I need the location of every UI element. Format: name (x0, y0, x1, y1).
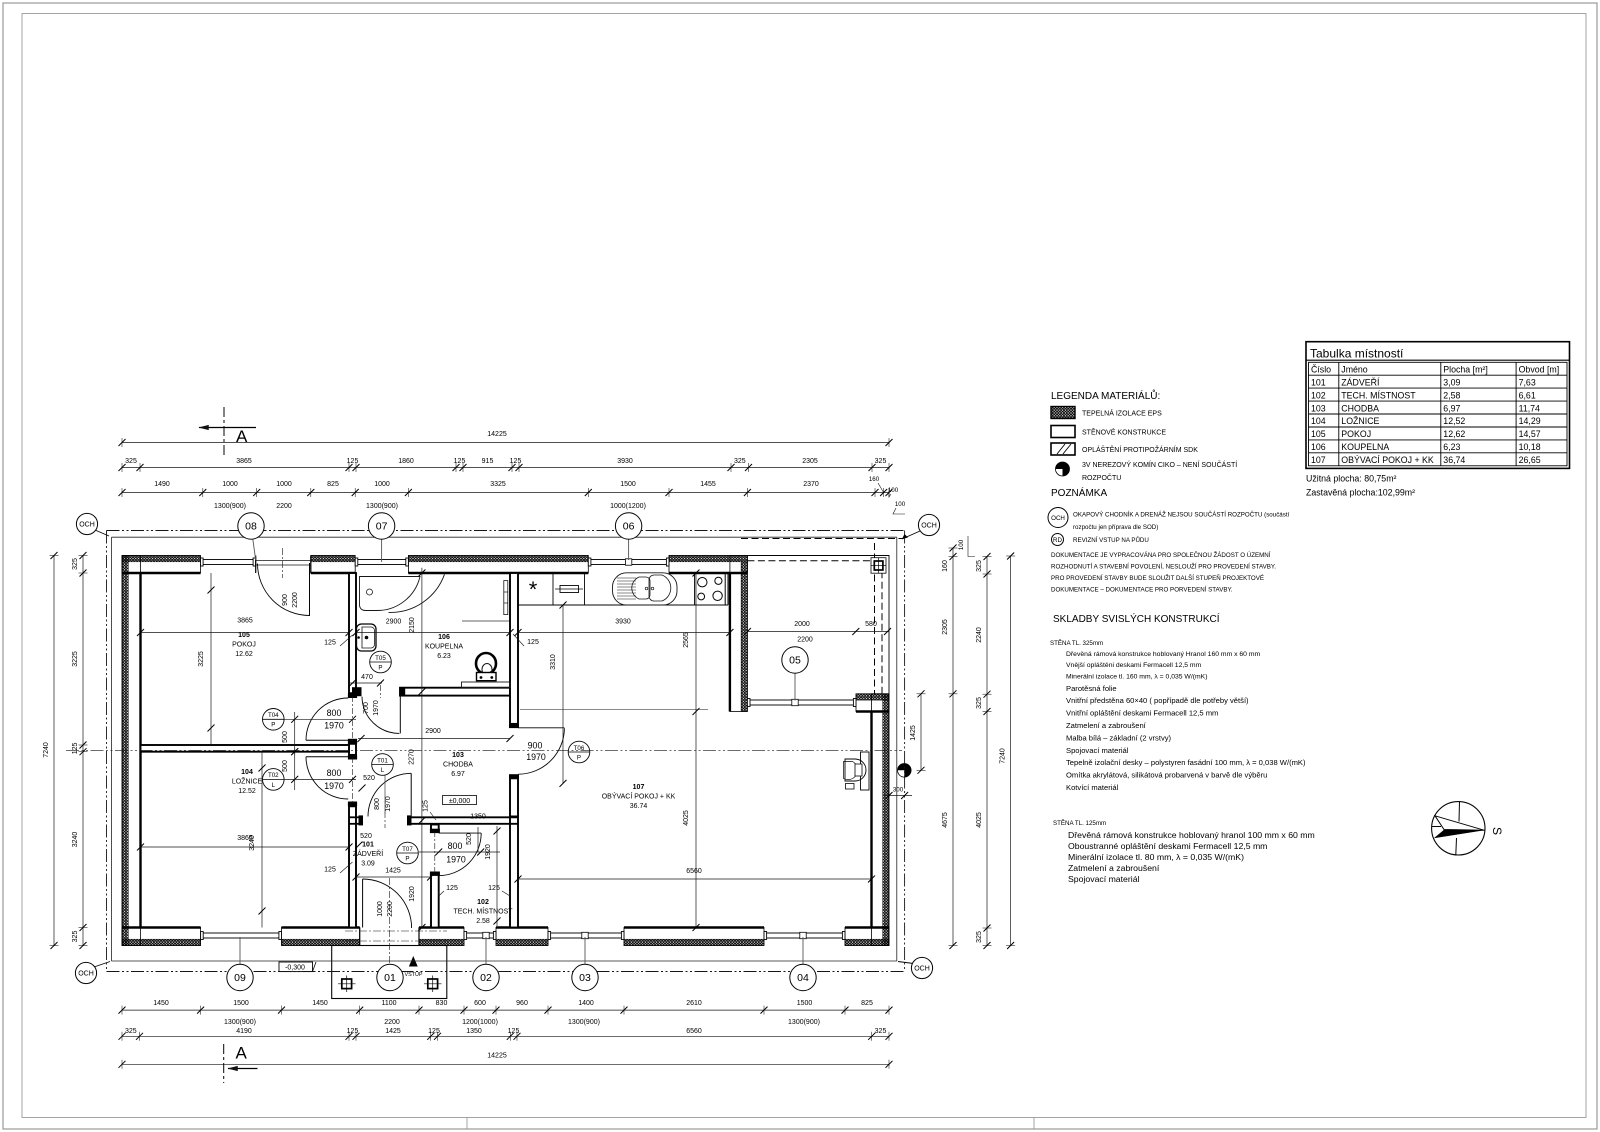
pos circle 09 (239, 937, 241, 978)
svg-text:125: 125 (423, 800, 430, 812)
bottom row 1 (122, 1009, 889, 1011)
bathtub (360, 577, 421, 611)
svg-text:700: 700 (363, 702, 370, 714)
svg-text:325: 325 (734, 458, 746, 465)
svg-text:3V NEREZOVÝ KOMÍN CIKO – NENÍ: 3V NEREZOVÝ KOMÍN CIKO – NENÍ SOUČÁSTÍ (1082, 460, 1237, 469)
svg-text:OCH: OCH (78, 971, 94, 978)
svg-text:325: 325 (125, 458, 137, 465)
svg-text:26,65: 26,65 (1519, 455, 1541, 465)
T04 500 offset (294, 712, 296, 755)
svg-text:rozpočtu jen příprava dle SOD): rozpočtu jen příprava dle SOD) (1073, 524, 1158, 531)
svg-text:101: 101 (1311, 377, 1326, 387)
tech 1920 (496, 826, 498, 926)
roof overhang dashed top (741, 538, 904, 540)
koupelna/chodba/zadveri vertical dim line (421, 568, 423, 928)
svg-text:OKAPOVÝ CHODNÍK A DRENÁŽ NEJSO: OKAPOVÝ CHODNÍK A DRENÁŽ NEJSOU SOUČÁSTÍ… (1073, 511, 1290, 519)
T06 door arc (to living) (518, 727, 564, 729)
window W08a top (1300(900)) (201, 559, 256, 561)
kitchen counter front edge (518, 604, 728, 606)
svg-text:3,09: 3,09 (1443, 377, 1460, 387)
svg-text:T01: T01 (377, 757, 388, 764)
svg-text:Vnější opláštěni deskami Ferma: Vnější opláštěni deskami Fermacell 12,5 … (1066, 662, 1202, 669)
room104 width 3865 (141, 846, 350, 848)
och note (1048, 508, 1068, 528)
pos circle 03 (584, 937, 586, 978)
OCH top-left (95, 530, 109, 536)
legend sdk swatch (1051, 443, 1075, 455)
svg-text:TEPELNÁ IZOLACE EPS: TEPELNÁ IZOLACE EPS (1082, 409, 1162, 418)
svg-text:SKLADBY SVISLÝCH KONSTRUKCÍ: SKLADBY SVISLÝCH KONSTRUKCÍ (1053, 612, 1220, 625)
top exterior wall outline (122, 556, 747, 574)
T01 jambs (359, 815, 364, 825)
svg-text:Minerální izolace tl. 160 mm,: Minerální izolace tl. 160 mm, λ = 0,035 … (1066, 673, 1207, 680)
svg-text:09: 09 (234, 972, 246, 984)
T02 500 offset (294, 748, 296, 790)
svg-text:100: 100 (895, 501, 906, 508)
partition P1 south part (349, 806, 356, 927)
svg-text:Spojovací materiál: Spojovací materiál (1066, 746, 1129, 755)
svg-text:ROZPOČTU: ROZPOČTU (1082, 473, 1121, 482)
svg-text:DOKUMENTACE JE VYPRACOVÁNA PRO: DOKUMENTACE JE VYPRACOVÁNA PRO SPOLEČNOU… (1051, 551, 1271, 559)
T02 dim line 800/1970 (284, 778, 356, 780)
window 03 bottom (548, 932, 624, 934)
pos circle 06 (628, 526, 630, 560)
svg-text:1920: 1920 (485, 844, 492, 860)
svg-text:325: 325 (72, 558, 79, 570)
svg-text:P: P (378, 664, 382, 671)
right exterior wall (lower) (872, 694, 890, 946)
svg-text:14225: 14225 (487, 431, 507, 438)
svg-text:104: 104 (1311, 416, 1326, 426)
svg-text:1920: 1920 (409, 886, 416, 902)
toilet (476, 653, 496, 674)
svg-text:Malba bílá – základní (2 vrstv: Malba bílá – základní (2 vrstvy) (1066, 733, 1172, 742)
T02 door leaf+arc (to loznice 104) (306, 756, 348, 758)
svg-text:08: 08 (245, 521, 257, 533)
table row 105 (1309, 426, 1568, 428)
svg-text:03: 03 (579, 972, 591, 984)
svg-text:12.62: 12.62 (235, 651, 253, 658)
mid axis dash-dot line (66, 749, 902, 751)
T05 koupelna door axis (380, 685, 382, 698)
T07 jambs (430, 829, 440, 833)
svg-text:2200: 2200 (292, 592, 299, 608)
svg-text:6.97: 6.97 (451, 771, 465, 778)
svg-text:2200: 2200 (387, 901, 394, 917)
svg-text:Spojovací materiál: Spojovací materiál (1068, 874, 1140, 884)
svg-text:2610: 2610 (686, 1000, 702, 1007)
T07 door axis (434, 831, 436, 874)
table row 107 (1309, 452, 1568, 454)
extension line at terrace-living wall inner face (520, 709, 708, 711)
entrance door leaf+arc (362, 879, 364, 928)
svg-text:500: 500 (282, 760, 289, 772)
legend chimney symbol (1056, 462, 1070, 476)
svg-text:580: 580 (865, 621, 877, 628)
kitchen sink unit (613, 573, 678, 605)
svg-text:CHODBA: CHODBA (1341, 403, 1379, 413)
legend wall swatch (1051, 426, 1075, 438)
door 08 axis (282, 548, 284, 578)
living width 6560 (518, 878, 872, 880)
svg-text:STĚNOVÉ KONSTRUKCE: STĚNOVÉ KONSTRUKCE (1082, 428, 1166, 437)
svg-text:-0,300: -0,300 (285, 965, 305, 972)
svg-text:1300(900): 1300(900) (366, 503, 398, 510)
koupelna width 2900 (356, 632, 510, 634)
towel radiator (504, 581, 508, 615)
T01 door axis (384, 812, 386, 828)
svg-text:6,97: 6,97 (1443, 403, 1460, 413)
svg-text:2370: 2370 (803, 481, 819, 488)
T02 circle (263, 769, 285, 791)
svg-text:3225: 3225 (72, 651, 79, 667)
svg-text:1425: 1425 (385, 1028, 401, 1035)
legend eps swatch (1051, 407, 1075, 419)
level ±0,000 (443, 796, 477, 805)
roof dashed inner (747, 560, 880, 562)
svg-text:1500: 1500 (797, 1000, 813, 1007)
svg-text:125: 125 (324, 867, 336, 874)
svg-text:4675: 4675 (942, 812, 949, 828)
koupelna 470 dim (349, 682, 382, 684)
svg-text:12,62: 12,62 (1443, 429, 1465, 439)
room105 height 3225 (210, 573, 212, 745)
walkway solid outline (112, 536, 897, 538)
svg-text:12.52: 12.52 (238, 788, 256, 795)
svg-text:1300(900): 1300(900) (788, 1019, 820, 1026)
svg-text:106: 106 (1311, 442, 1326, 452)
svg-text:36.74: 36.74 (630, 803, 648, 810)
svg-text:1860: 1860 (398, 458, 414, 465)
svg-text:3930: 3930 (615, 619, 631, 626)
svg-text:1490: 1490 (154, 481, 170, 488)
svg-text:LEGENDA MATERIÁLŮ:: LEGENDA MATERIÁLŮ: (1051, 389, 1160, 402)
svg-text:1970: 1970 (385, 796, 392, 812)
living height 2565/4025 line (695, 573, 697, 928)
terrace post dashed lines (874, 543, 876, 694)
svg-text:7240: 7240 (1000, 748, 1007, 764)
svg-text:105: 105 (238, 632, 250, 639)
svg-text:Omítka akrylátová, silikátová: Omítka akrylátová, silikátová probarvená… (1066, 771, 1267, 780)
living 3310 line (562, 605, 564, 783)
svg-text:600: 600 (474, 1000, 486, 1007)
svg-text:OBÝVACÍ POKOJ + KK: OBÝVACÍ POKOJ + KK (602, 792, 676, 801)
T04 door leaf+arc (to pokoj 105) (306, 739, 348, 741)
svg-text:7,63: 7,63 (1519, 377, 1536, 387)
svg-text:830: 830 (436, 1000, 448, 1007)
chodba south wall P5 left (with T01 opening) (349, 816, 363, 818)
svg-text:1970: 1970 (324, 781, 344, 791)
svg-text:Dřevěná rámová konstrukce hobl: Dřevěná rámová konstrukce hoblovaný hran… (1068, 830, 1315, 840)
svg-text:OCH: OCH (79, 522, 95, 529)
svg-text:800: 800 (327, 768, 342, 778)
svg-text:REVIZNÍ VSTUP NA PŮDU: REVIZNÍ VSTUP NA PŮDU (1073, 537, 1149, 544)
left chain inner (82, 556, 84, 946)
koupelna glass line (462, 620, 509, 622)
svg-text:3865: 3865 (236, 458, 252, 465)
T04 dim line 800/1970 (284, 718, 356, 720)
svg-text:1000: 1000 (276, 481, 292, 488)
svg-text:Zatmelení a zabroušení: Zatmelení a zabroušení (1068, 863, 1160, 873)
svg-text:4190: 4190 (236, 1028, 252, 1035)
T04 door axis dashes (352, 696, 354, 741)
svg-text:L: L (272, 782, 276, 789)
window 04 bottom (764, 932, 845, 934)
svg-text:325: 325 (72, 931, 79, 943)
svg-text:325: 325 (125, 1028, 137, 1035)
svg-text:*: * (529, 577, 538, 602)
T06 jambs (509, 724, 519, 728)
svg-text:125: 125 (428, 1028, 440, 1035)
svg-text:1350: 1350 (470, 814, 486, 821)
svg-text:Dřevěná rámová konstrukce hobl: Dřevěná rámová konstrukce hoblovaný Hran… (1066, 651, 1261, 658)
partition P1 (bedrooms/hall) north part (349, 573, 356, 693)
svg-text:125: 125 (510, 458, 522, 465)
svg-text:T05: T05 (375, 655, 386, 662)
svg-text:Obvod [m]: Obvod [m] (1519, 364, 1560, 374)
svg-text:325: 325 (875, 458, 887, 465)
svg-text:1000: 1000 (377, 901, 384, 917)
bedroom divider wall P2 (141, 745, 350, 752)
svg-text:STĚNA TL. 125mm: STĚNA TL. 125mm (1053, 819, 1106, 827)
svg-text:14225: 14225 (487, 1053, 507, 1060)
tech east wall (510, 817, 518, 928)
svg-text:S: S (1490, 827, 1504, 835)
right chain total 7240 (1010, 556, 1012, 946)
tech west wall P6 (431, 825, 439, 832)
kitchen width 3930 (518, 632, 730, 634)
svg-text:915: 915 (482, 458, 494, 465)
svg-text:125: 125 (454, 458, 466, 465)
svg-text:7240: 7240 (43, 742, 50, 758)
svg-text:3930: 3930 (617, 458, 633, 465)
svg-text:325: 325 (875, 1028, 887, 1035)
svg-text:520: 520 (360, 833, 372, 840)
svg-text:T02: T02 (268, 772, 279, 779)
entrance door axis dashdot (389, 878, 391, 963)
kitchen/living west wall K1 upper (510, 573, 518, 724)
svg-text:1450: 1450 (153, 1000, 169, 1007)
window 02 bottom (464, 932, 496, 934)
svg-text:07: 07 (376, 521, 388, 533)
svg-text:6,23: 6,23 (1443, 442, 1460, 452)
washbasin (357, 624, 377, 651)
svg-text:2900: 2900 (425, 728, 441, 735)
svg-text:1970: 1970 (324, 721, 344, 731)
bottom row 2 (122, 1035, 889, 1037)
svg-text:TECH. MÍSTNOST: TECH. MÍSTNOST (1341, 390, 1416, 400)
svg-text:DOKUMENTACE – DOKUMENTACE PRO: DOKUMENTACE – DOKUMENTACE PRO PORVEDENÍ … (1051, 587, 1233, 594)
svg-text:101: 101 (362, 842, 374, 849)
pos circle 04 (802, 937, 804, 978)
svg-text:825: 825 (327, 481, 339, 488)
svg-text:3225: 3225 (198, 651, 205, 667)
svg-text:4025: 4025 (976, 812, 983, 828)
OCH bottom-left (94, 962, 110, 968)
svg-text:1500: 1500 (620, 481, 636, 488)
room105 width 3865 (141, 632, 350, 634)
zadveri 1425 (356, 876, 431, 878)
svg-text:100: 100 (888, 487, 899, 494)
svg-text:L: L (381, 767, 385, 774)
svg-text:Číslo: Číslo (1311, 364, 1331, 374)
stove (695, 573, 726, 605)
svg-text:800: 800 (374, 798, 381, 810)
svg-text:POKOJ: POKOJ (232, 642, 256, 649)
svg-text:125: 125 (347, 458, 359, 465)
right 300 dim (884, 795, 912, 797)
pos circle 05 (794, 660, 796, 701)
svg-text:2200: 2200 (276, 503, 292, 510)
svg-text:Zatmelení a zabroušení: Zatmelení a zabroušení (1066, 721, 1147, 730)
svg-text:14,29: 14,29 (1519, 416, 1541, 426)
entrance threshold dashdot (345, 930, 447, 932)
svg-text:Zastavěná plocha:102,99m²: Zastavěná plocha:102,99m² (1306, 488, 1415, 498)
svg-text:125: 125 (508, 1028, 520, 1035)
terrace sliding window (747, 699, 856, 701)
svg-text:10,18: 10,18 (1519, 442, 1541, 452)
svg-text:05: 05 (789, 655, 801, 667)
svg-text:STĚNA TL. 325mm: STĚNA TL. 325mm (1050, 639, 1103, 647)
svg-text:160: 160 (869, 476, 880, 483)
zadveri north wall lower edge (363, 823, 407, 825)
svg-text:125: 125 (324, 640, 336, 647)
svg-text:520: 520 (466, 833, 473, 845)
rd note (1052, 534, 1064, 546)
svg-text:1500: 1500 (233, 1000, 249, 1007)
svg-text:1000: 1000 (374, 481, 390, 488)
section A bottom (223, 1044, 225, 1083)
svg-text:02: 02 (480, 972, 492, 984)
table row 106 (1309, 439, 1568, 441)
svg-text:1425: 1425 (385, 868, 401, 875)
T04 jambs (348, 693, 357, 698)
table row 102 (1309, 387, 1568, 389)
top row 3 (122, 492, 889, 494)
svg-text:325: 325 (976, 560, 983, 572)
terrace south wall chunk (856, 694, 889, 712)
svg-text:2305: 2305 (942, 619, 949, 635)
svg-text:960: 960 (516, 1000, 528, 1007)
porch drain squares (342, 979, 352, 989)
svg-text:104: 104 (241, 769, 253, 776)
svg-text:OCH: OCH (914, 966, 930, 973)
svg-text:900: 900 (282, 594, 289, 606)
svg-text:11,74: 11,74 (1519, 403, 1540, 413)
svg-text:103: 103 (1311, 403, 1326, 413)
terrace dims 2000 580 2200 (747, 631, 889, 633)
svg-text:1970: 1970 (373, 700, 380, 716)
svg-text:1970: 1970 (446, 855, 466, 865)
svg-text:6560: 6560 (686, 868, 702, 875)
svg-text:125: 125 (72, 742, 79, 754)
svg-text:PRO PROVEDENÍ STAVBY BUDE SLOU: PRO PROVEDENÍ STAVBY BUDE SLOUŽIT DALŠÍ … (1051, 574, 1264, 582)
svg-text:102: 102 (1311, 390, 1326, 400)
svg-text:2565: 2565 (683, 632, 690, 648)
svg-text:500: 500 (282, 731, 289, 743)
OCH top-right (902, 531, 920, 539)
svg-text:100: 100 (958, 539, 965, 550)
svg-text:A: A (236, 1044, 248, 1063)
top row total 14225 (122, 442, 889, 444)
svg-text:P: P (577, 754, 581, 761)
svg-text:ZÁDVEŘÍ: ZÁDVEŘÍ (353, 849, 383, 858)
svg-text:T06: T06 (574, 745, 585, 752)
pos circle 01 (377, 964, 403, 990)
table row 101 (1309, 374, 1568, 376)
svg-text:800: 800 (448, 841, 463, 851)
svg-text:1000(1200): 1000(1200) (610, 503, 646, 510)
pos circle 08 (251, 526, 256, 560)
svg-text:Tepelně izolační desky – polys: Tepelně izolační desky – polystyren fasá… (1066, 758, 1306, 767)
svg-text:6560: 6560 (686, 1028, 702, 1035)
T05 circle (370, 651, 392, 673)
svg-text:520: 520 (363, 775, 375, 782)
svg-text:103: 103 (452, 752, 464, 759)
table row 104 (1309, 413, 1568, 415)
window 09 bottom (201, 932, 282, 934)
svg-text:ZÁDVEŘÍ: ZÁDVEŘÍ (1341, 377, 1380, 387)
OCH dash-dot rectangle (107, 530, 905, 532)
svg-text:1455: 1455 (700, 481, 716, 488)
koupelna south wall P3 (400, 688, 510, 696)
svg-text:RD: RD (1053, 537, 1062, 544)
svg-text:ROZHODNUTÍ A STAVEBNÍ POVOLENÍ: ROZHODNUTÍ A STAVEBNÍ POVOLENÍ, NESLOUŽÍ… (1051, 563, 1276, 571)
tech T07 dim 800/1970 (419, 851, 500, 853)
svg-text:06: 06 (623, 521, 635, 533)
terrace post (871, 558, 886, 574)
svg-text:105: 105 (1311, 429, 1326, 439)
svg-text:1300(900): 1300(900) (568, 1019, 600, 1026)
svg-text:2200: 2200 (384, 1019, 400, 1026)
svg-text:LOŽNICE: LOŽNICE (1341, 416, 1379, 426)
svg-text:Vnitřní předstěna 60×40 ( popř: Vnitřní předstěna 60×40 ( popřípadě dle … (1066, 696, 1249, 705)
svg-text:125: 125 (347, 1028, 359, 1035)
svg-text:6,61: 6,61 (1519, 390, 1536, 400)
svg-text:04: 04 (797, 972, 809, 984)
svg-text:OCH: OCH (921, 523, 937, 530)
svg-text:2000: 2000 (794, 621, 810, 628)
svg-text:3310: 3310 (550, 654, 557, 670)
terrace west wall (730, 556, 748, 712)
room104 height 3240 (261, 752, 263, 928)
svg-text:POKOJ: POKOJ (1341, 429, 1371, 439)
svg-text:3865: 3865 (237, 618, 253, 625)
window koupelna 07 (355, 559, 408, 561)
svg-text:Oboustranné opláštění deskami: Oboustranné opláštění deskami Fermacell … (1068, 841, 1267, 851)
counter dividers (552, 573, 554, 605)
svg-text:125: 125 (488, 885, 500, 892)
koupelna shelf (462, 682, 511, 688)
svg-text:107: 107 (1311, 455, 1326, 465)
svg-text:CHODBA: CHODBA (443, 762, 473, 769)
T01 circle (384, 775, 386, 814)
svg-text:Vnitřní opláštění deskami Ferm: Vnitřní opláštění deskami Fermacell 12,5… (1066, 709, 1218, 718)
koupelna S wall stub at partition (352, 687, 362, 696)
left chain total 7240 (53, 556, 55, 946)
svg-text:1425: 1425 (910, 725, 917, 741)
svg-text:2900: 2900 (386, 619, 402, 626)
svg-text:6.23: 6.23 (437, 653, 451, 660)
chodba width 2900 (358, 738, 510, 740)
pos circle 02 (485, 937, 487, 978)
footer divider 1 (466, 1118, 468, 1130)
svg-text:900: 900 (528, 741, 543, 751)
bottom exterior wall (122, 928, 889, 946)
tech 520 (477, 827, 479, 852)
svg-text:470: 470 (361, 674, 373, 681)
svg-text:1450: 1450 (312, 1000, 328, 1007)
